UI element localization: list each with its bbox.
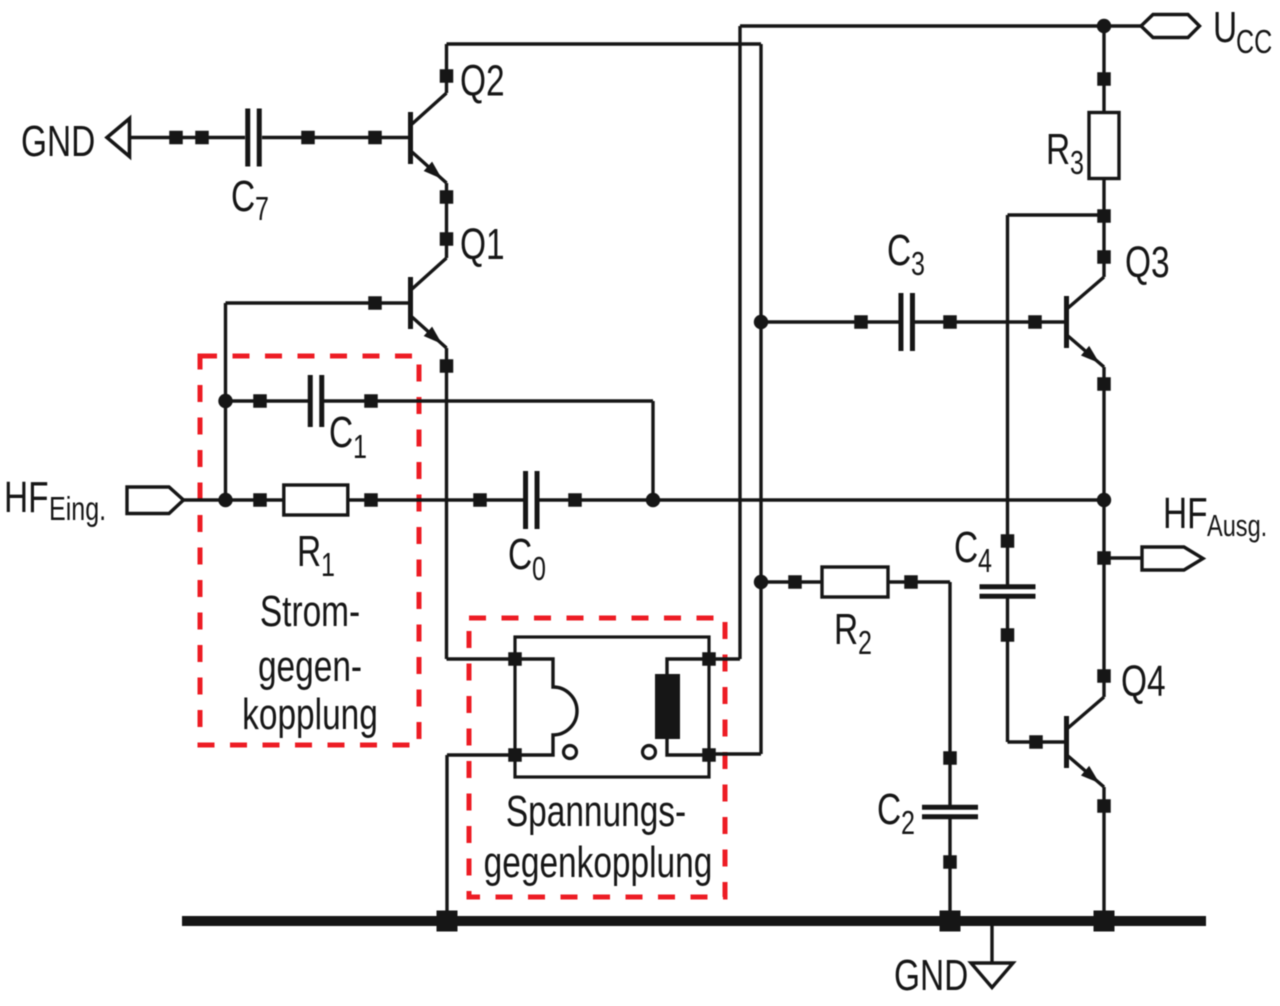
wire C3 branch left [761, 320, 901, 323]
junction square R2 right [904, 575, 918, 589]
ground bus bar [182, 916, 1206, 926]
svg-text:7: 7 [255, 191, 269, 228]
svg-text:C: C [508, 531, 532, 579]
port HF_Ausg arrow tag [1142, 547, 1203, 570]
svg-text:GND: GND [21, 118, 95, 166]
junction square C1 left [253, 394, 267, 408]
junction square on GND wire (1) [169, 131, 183, 145]
wire R2 branch right [888, 580, 950, 583]
wire Q2 collector up-leg [445, 44, 448, 93]
wire Q4 emitter to ground bus [1102, 787, 1105, 921]
svg-text:U: U [1213, 4, 1237, 52]
wire output node down to Q4 collector [1102, 500, 1105, 697]
capacitor C4 [980, 589, 1036, 594]
transformer primary winding [515, 659, 577, 755]
wire C7 to Q2 base [262, 136, 408, 139]
transformer pin square top-right [702, 652, 716, 666]
wire transformer top-right pin to U_CC down-leg [709, 657, 740, 660]
junction square C0 left [473, 493, 487, 507]
svg-text:R: R [834, 606, 858, 654]
transformer T1 body box [515, 637, 709, 777]
junction square C2 top [943, 751, 957, 765]
bus junction square (transformer leg) [437, 911, 458, 932]
wire R3 to Q3 collector [1102, 178, 1105, 277]
transistor Q1 [411, 258, 447, 348]
transformer pin square bottom-right [702, 748, 716, 762]
svg-text:C: C [231, 173, 255, 221]
junction square HF_Ausg tap [1097, 551, 1111, 565]
junction square above R3 [1097, 72, 1111, 86]
transformer secondary winding [667, 659, 709, 755]
svg-text:Strom-: Strom- [260, 588, 360, 636]
svg-text:C: C [887, 227, 911, 275]
wire HF line C0 to output column [537, 498, 1105, 501]
junction square Q2 collector [440, 69, 454, 83]
resistor R2 [822, 567, 888, 597]
svg-text:C: C [954, 524, 978, 572]
svg-text:kopplung: kopplung [242, 691, 378, 739]
ground symbol GND (bottom) [990, 926, 993, 963]
junction square R1 right [364, 493, 378, 507]
junction square Q3 emitter [1097, 377, 1111, 391]
junction square Q3 collector [1097, 250, 1111, 264]
junction square C3 right [943, 315, 957, 329]
wire U_CC to R3 [1102, 26, 1105, 113]
junction square C7-Q2 (2) [368, 131, 382, 145]
wire C3 branch right to Q3 base [912, 320, 1064, 323]
port U_CC hexagon [1141, 15, 1200, 38]
capacitor C0 [528, 471, 535, 529]
wire C4 to Q4 base [1006, 597, 1009, 742]
node dot HF input at left column [218, 493, 232, 507]
capacitor C1 [313, 375, 320, 427]
svg-text:R: R [1046, 126, 1070, 174]
node dot C3 tap on feedback column [754, 315, 768, 329]
svg-text:3: 3 [1070, 145, 1084, 182]
svg-text:gegen-: gegen- [258, 643, 362, 691]
junction square R2 left [788, 575, 802, 589]
junction square C4 bottom [1001, 628, 1015, 642]
transformer secondary phase dot [643, 746, 656, 759]
junction square below R3 [1097, 209, 1111, 223]
transformer pin square top-left [508, 652, 522, 666]
ground port GND (top-left) arrow symbol [107, 119, 130, 157]
junction square Q2-Q1 (1) [440, 190, 454, 204]
bus junction square (C2 leg) [940, 911, 961, 932]
wire Q3 emitter down to output node [1102, 367, 1105, 500]
wire HF input line (input to C0) [184, 498, 527, 501]
dashed box Stromgegenkopplung [200, 356, 419, 745]
svg-text:4: 4 [978, 543, 992, 580]
transistor Q4 [1067, 697, 1105, 787]
svg-text:R: R [297, 528, 321, 576]
junction square Q1 emitter [440, 359, 454, 373]
node dot U_CC rail [1097, 19, 1111, 33]
junction square C7-Q2 (1) [301, 131, 315, 145]
capacitor C3 [903, 293, 910, 351]
wire C1 return down-leg [651, 401, 654, 500]
svg-text:0: 0 [532, 551, 546, 588]
junction square Q4 collector [1097, 669, 1111, 683]
transistor Q3 [1067, 277, 1105, 367]
junction square C3 left [854, 315, 868, 329]
wire C1 branch left [226, 399, 312, 402]
wire transformer bottom-right pin to feedback column [709, 752, 761, 755]
transformer pin square bottom-left [508, 748, 522, 762]
svg-text:Q2: Q2 [460, 57, 505, 105]
wire left column vertical (Q1 base to HF input node) [224, 303, 227, 500]
wire C2 to ground bus [948, 817, 951, 921]
bus junction square (Q4 emitter leg) [1094, 911, 1115, 932]
junction square Q2-Q1 (2) [440, 232, 454, 246]
wire transformer bottom-left pin to ground bus [447, 753, 515, 756]
svg-text:GND: GND [894, 952, 968, 1000]
svg-text:2: 2 [858, 625, 872, 662]
junction square C1 right [364, 394, 378, 408]
junction square C4 top [1001, 534, 1015, 548]
junction square C0 right [568, 493, 582, 507]
dashed box Spannungsgegenkopplung [469, 618, 725, 897]
junction square on GND wire (2) [195, 131, 209, 145]
svg-text:Eing.: Eing. [49, 491, 106, 528]
junction square R1 left [253, 493, 267, 507]
junction square Q3 base [1028, 315, 1042, 329]
svg-text:Q3: Q3 [1125, 239, 1170, 287]
node dot C1 branch left [218, 394, 232, 408]
node dot R2 tap on feedback column [754, 575, 768, 589]
wire Q1 base to left column [226, 301, 409, 304]
svg-text:1: 1 [353, 429, 367, 466]
transformer primary phase dot [564, 746, 577, 759]
wire C1 branch right [321, 399, 653, 402]
svg-text:CC: CC [1236, 24, 1272, 61]
wire HF_Ausg tap to port [1104, 556, 1142, 559]
junction square Q1 base [368, 296, 382, 310]
wire U_CC rail to port [1104, 24, 1141, 27]
svg-text:C: C [329, 409, 353, 457]
transistor Q2 [411, 93, 447, 183]
svg-text:3: 3 [911, 246, 925, 283]
node dot HF output [1097, 493, 1111, 507]
junction square Q4 emitter [1097, 799, 1111, 813]
wire Q2 emitter to Q1 collector [445, 183, 448, 258]
svg-text:gegenkopplung: gegenkopplung [484, 839, 713, 887]
svg-text:2: 2 [901, 805, 915, 842]
svg-text:C: C [877, 786, 901, 834]
resistor R1 [284, 485, 348, 515]
svg-text:1: 1 [321, 547, 335, 584]
wire Q2 collector horizontal rail [447, 42, 762, 45]
wire Q1 emitter down to transformer primary [445, 348, 448, 659]
junction square C2 bottom [943, 855, 957, 869]
capacitor C7 [250, 109, 257, 167]
wire Q2-collector rail down-leg (feedback column) [759, 44, 762, 754]
svg-text:Q1: Q1 [460, 221, 505, 269]
wire R2 branch left [761, 580, 822, 583]
svg-text:Q4: Q4 [1121, 658, 1166, 706]
svg-text:HF: HF [1163, 490, 1208, 538]
resistor R3 [1089, 113, 1119, 179]
capacitor C2 [922, 810, 978, 815]
svg-text:Spannungs-: Spannungs- [506, 788, 686, 836]
node dot C1-return joins HF line [646, 493, 660, 507]
wire U_CC top rail [740, 24, 1104, 27]
wire GND arrow to C7 [130, 136, 246, 139]
wire U_CC rail down-leg to transformer secondary top [738, 26, 741, 659]
svg-text:Ausg.: Ausg. [1207, 508, 1267, 543]
wire R3-bottom tap to C4 column [1008, 213, 1105, 216]
svg-text:HF: HF [4, 474, 49, 522]
junction square Q4 base [1029, 735, 1043, 749]
port HF_Eing arrow tag [127, 487, 184, 514]
